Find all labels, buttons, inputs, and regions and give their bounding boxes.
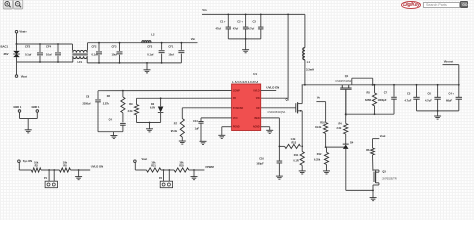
svg-text:FPWM: FPWM	[206, 165, 215, 169]
svg-text:R5: R5	[367, 91, 371, 95]
svg-text:SYNC/SD: SYNC/SD	[233, 108, 244, 110]
svg-text:LF1: LF1	[78, 60, 83, 64]
svg-text:PGND: PGND	[233, 127, 240, 129]
svg-text:C7: C7	[384, 91, 388, 95]
svg-text:6.8V: 6.8V	[150, 106, 155, 109]
svg-text:R8: R8	[63, 165, 67, 168]
svg-text:CF1: CF1	[168, 45, 173, 49]
svg-text:6.25k: 6.25k	[314, 158, 321, 161]
svg-text:C4 +: C4 +	[449, 91, 455, 95]
svg-text:R2: R2	[35, 165, 39, 168]
svg-text:U1: U1	[253, 72, 257, 76]
svg-text:4.7uF: 4.7uF	[405, 99, 412, 103]
svg-text:4.7uF: 4.7uF	[425, 99, 432, 103]
svg-text:R10: R10	[320, 121, 325, 124]
svg-text:Vbat: Vbat	[21, 75, 27, 79]
svg-text:GND 1: GND 1	[13, 105, 21, 109]
svg-text:10uf: 10uf	[168, 52, 173, 56]
svg-text:10uf: 10uf	[46, 52, 52, 56]
svg-text:R4: R4	[339, 123, 343, 126]
svg-text:2.0k: 2.0k	[128, 110, 133, 113]
svg-text:L2: L2	[151, 33, 155, 37]
svg-text:625R: 625R	[365, 98, 371, 102]
svg-text:0.1uf: 0.1uf	[92, 52, 98, 56]
svg-text:10uf: 10uf	[112, 52, 117, 56]
svg-text:CF2: CF2	[92, 45, 97, 49]
svg-text:UVLO: UVLO	[253, 91, 260, 93]
svg-text:R3: R3	[107, 95, 111, 98]
svg-text:Vboost: Vboost	[444, 59, 454, 63]
svg-text:DR: DR	[256, 108, 260, 110]
svg-text:2.27k: 2.27k	[103, 102, 110, 105]
svg-text:C5: C5	[407, 91, 411, 95]
svg-text:FB: FB	[233, 98, 236, 100]
svg-text:LM3481MM: LM3481MM	[232, 80, 259, 84]
svg-text:R6: R6	[366, 149, 370, 152]
svg-text:COMP: COMP	[233, 91, 240, 93]
svg-text:Q3: Q3	[382, 170, 386, 173]
svg-text:R12: R12	[317, 153, 322, 156]
svg-text:C14: C14	[193, 120, 198, 123]
svg-text:Vout: Vout	[142, 157, 148, 161]
svg-text:Vo: Vo	[317, 96, 321, 100]
svg-text:C4: C4	[109, 119, 113, 122]
svg-text:3.3mH: 3.3mH	[306, 67, 314, 71]
svg-text:0.1uf: 0.1uf	[25, 52, 31, 56]
svg-text:C2 +: C2 +	[237, 20, 243, 24]
svg-text:CSD25744N2: CSD25744N2	[335, 79, 352, 83]
svg-text:GND 1: GND 1	[32, 105, 40, 109]
svg-text:AGND: AGND	[253, 126, 260, 129]
svg-text:2N7002E/TR: 2N7002E/TR	[382, 177, 397, 180]
svg-text:Vin: Vin	[191, 37, 196, 41]
svg-text:ISEN: ISEN	[254, 118, 260, 120]
svg-text:CSD19532Q5A: CSD19532Q5A	[267, 110, 285, 114]
svg-text:CF3: CF3	[112, 45, 117, 49]
svg-text:P2: P2	[159, 177, 163, 180]
svg-text:100pF: 100pF	[256, 162, 264, 165]
svg-text:CF2: CF2	[25, 45, 31, 49]
svg-text:C6: C6	[428, 91, 432, 95]
svg-text:0.1R: 0.1R	[293, 160, 298, 163]
svg-text:47uf: 47uf	[216, 27, 221, 31]
svg-text:UVLO ON: UVLO ON	[91, 165, 103, 169]
svg-text:Q2: Q2	[286, 97, 290, 101]
svg-text:4.7uf: 4.7uf	[248, 27, 254, 31]
svg-text:R11: R11	[294, 154, 299, 157]
svg-text:1uF: 1uF	[195, 128, 200, 131]
svg-text:Q1: Q1	[345, 74, 349, 78]
svg-text:Vout: Vout	[380, 134, 386, 138]
svg-text:R13: R13	[292, 141, 297, 144]
svg-text:C3: C3	[253, 20, 257, 24]
svg-text:68uF: 68uF	[446, 99, 452, 103]
svg-text:VCC: VCC	[233, 118, 238, 120]
svg-text:C8: C8	[86, 95, 90, 98]
svg-text:R9: R9	[129, 103, 133, 106]
svg-text:C16: C16	[259, 157, 264, 160]
svg-text:CF4: CF4	[46, 45, 52, 49]
svg-text:2200uf: 2200uf	[83, 102, 91, 105]
svg-text:D4: D4	[350, 141, 354, 144]
svg-text:L1: L1	[307, 60, 311, 64]
svg-text:P1: P1	[44, 177, 48, 180]
svg-text:R21: R21	[151, 165, 156, 168]
svg-text:BAC1: BAC1	[1, 44, 9, 48]
svg-text:R7: R7	[174, 123, 178, 126]
svg-text:19.0k: 19.0k	[315, 126, 322, 129]
svg-text:2.0k: 2.0k	[337, 127, 342, 130]
svg-text:VIN: VIN	[256, 98, 260, 100]
svg-text:Vin: Vin	[202, 8, 207, 12]
svg-text:Vbat+: Vbat+	[19, 30, 27, 34]
svg-text:95.0k: 95.0k	[171, 130, 178, 133]
svg-text:CF3: CF3	[147, 45, 152, 49]
svg-text:36V: 36V	[4, 52, 9, 56]
svg-text:47uf: 47uf	[233, 27, 238, 31]
svg-text:UVLO EN: UVLO EN	[266, 85, 279, 89]
svg-text:0.1uf: 0.1uf	[147, 52, 153, 56]
svg-text:1000pF: 1000pF	[378, 98, 387, 102]
svg-text:Sys ON: Sys ON	[23, 159, 32, 163]
svg-text:C1 +: C1 +	[220, 20, 226, 24]
svg-text:R25: R25	[179, 165, 184, 168]
